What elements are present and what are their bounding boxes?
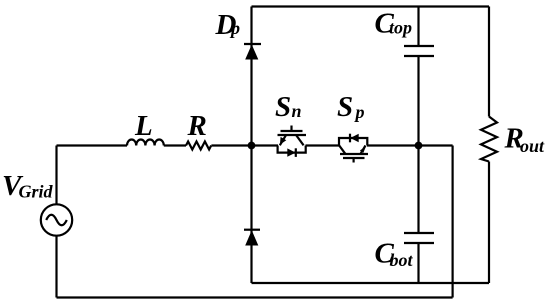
svg-text:R: R: [187, 110, 207, 142]
svg-text:Grid: Grid: [19, 182, 54, 202]
svg-text:S: S: [337, 91, 353, 123]
svg-text:top: top: [389, 18, 412, 38]
svg-text:n: n: [292, 101, 302, 121]
svg-text:bot: bot: [390, 250, 414, 270]
svg-text:p: p: [229, 18, 240, 38]
svg-text:p: p: [354, 102, 365, 122]
svg-text:out: out: [520, 136, 545, 156]
svg-text:S: S: [275, 91, 291, 123]
svg-text:L: L: [134, 110, 153, 142]
